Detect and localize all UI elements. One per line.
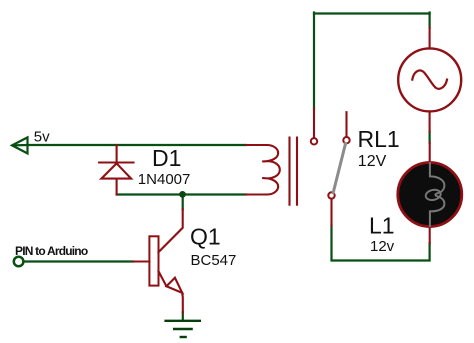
svg-text:12v: 12v [370, 238, 395, 255]
svg-text:1N4007: 1N4007 [138, 171, 191, 188]
svg-text:L1: L1 [369, 213, 395, 239]
svg-text:5v: 5v [34, 129, 50, 146]
svg-text:Q1: Q1 [190, 223, 221, 249]
svg-text:D1: D1 [152, 145, 181, 171]
svg-text:12V: 12V [358, 153, 387, 170]
svg-text:RL1: RL1 [358, 126, 400, 152]
svg-text:BC547: BC547 [191, 252, 237, 269]
svg-text:PIN to Arduino: PIN to Arduino [15, 244, 88, 258]
